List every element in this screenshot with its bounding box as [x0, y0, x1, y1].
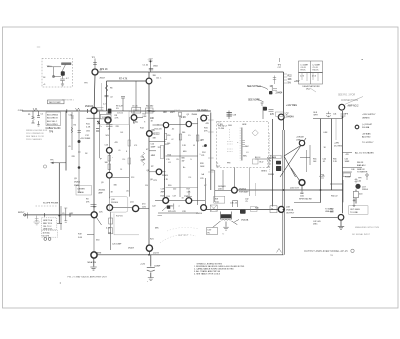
svg-text:+28V: +28V — [334, 143, 340, 145]
svg-text:TM: TM — [330, 255, 333, 257]
svg-text:2N1905: 2N1905 — [239, 188, 247, 190]
svg-text:C27: C27 — [173, 195, 176, 197]
svg-text:PRI: PRI — [227, 163, 231, 165]
svg-text:ALL DC VOLTAGES: ALL DC VOLTAGES — [355, 152, 374, 155]
svg-text:1K: 1K — [270, 86, 273, 88]
svg-text:47K: 47K — [270, 114, 275, 116]
svg-text:R27: R27 — [187, 189, 190, 191]
svg-text:2N404: 2N404 — [192, 114, 198, 116]
svg-text:WIRING SHOWN FOR: WIRING SHOWN FOR — [26, 130, 48, 132]
svg-text:SEC: SEC — [243, 156, 248, 158]
svg-text:220: 220 — [173, 189, 176, 191]
svg-text:2W: 2W — [211, 170, 214, 172]
svg-text:100K: 100K — [200, 166, 205, 168]
svg-text:R1: R1 — [28, 114, 30, 116]
svg-text:2N1304: 2N1304 — [111, 202, 119, 204]
svg-text:C1 .02: C1 .02 — [143, 65, 149, 67]
svg-text:TO PIN 4: TO PIN 4 — [62, 64, 69, 66]
svg-text:DISC: DISC — [313, 223, 318, 225]
svg-text:FIG. 2 5 WATT AUDIO AMPLIFIE: FIG. 2 5 WATT AUDIO AMPLIFIER UNIT — [68, 275, 108, 278]
svg-text:+: + — [112, 157, 113, 159]
svg-text:TEST POINT: TEST POINT — [49, 102, 62, 104]
svg-text:TP3: TP3 — [84, 83, 87, 85]
svg-text:10MF: 10MF — [151, 147, 157, 149]
svg-text:50MF 6V: 50MF 6V — [357, 169, 365, 171]
svg-text:R28: R28 — [215, 198, 218, 200]
svg-text:BLK-RED B: BLK-RED B — [47, 118, 58, 120]
svg-text:4.7K: 4.7K — [133, 122, 138, 124]
svg-text:TP1: TP1 — [92, 57, 95, 59]
svg-text:T3: T3 — [271, 208, 273, 210]
svg-text:2N1304: 2N1304 — [99, 190, 106, 192]
svg-text:330: 330 — [114, 185, 117, 187]
svg-text:2N398: 2N398 — [268, 174, 275, 176]
svg-text:5%: 5% — [188, 135, 191, 137]
svg-text:T1-204: T1-204 — [218, 128, 224, 130]
svg-text:115V OPERATION: 115V OPERATION — [26, 132, 44, 135]
svg-text:50MF: 50MF — [85, 138, 91, 140]
svg-text:Q12 B: Q12 B — [153, 252, 159, 254]
svg-text:SEE FIG. 3 FOR: SEE FIG. 3 FOR — [338, 95, 355, 97]
svg-text:+DELAY: +DELAY — [296, 136, 304, 139]
svg-text:R50 22: R50 22 — [331, 196, 338, 198]
svg-text:TO LINE: TO LINE — [350, 212, 358, 214]
svg-text:OUTPUT AMPLIFIER MODEL AP-1: OUTPUT AMPLIFIER MODEL AP-15 — [304, 250, 348, 253]
svg-text:Q5: Q5 — [187, 114, 190, 116]
svg-text:4.7K: 4.7K — [106, 227, 111, 229]
svg-text:.25: .25 — [245, 201, 248, 203]
svg-text:10K: 10K — [288, 79, 293, 81]
svg-text:.02: .02 — [172, 129, 175, 131]
svg-text:2N404A: 2N404A — [241, 218, 249, 221]
svg-text:680: 680 — [182, 158, 185, 160]
svg-text:C19: C19 — [161, 189, 164, 191]
svg-text:BLU: BLU — [260, 162, 264, 164]
svg-text:C3 .01: C3 .01 — [117, 113, 124, 115]
svg-text:C11 .1: C11 .1 — [156, 77, 161, 79]
svg-text:.02: .02 — [171, 139, 174, 141]
svg-text:2N404A: 2N404A — [286, 116, 295, 119]
svg-text:GRN TO A: GRN TO A — [43, 219, 53, 222]
svg-text:C+20V: C+20V — [150, 111, 157, 113]
svg-text:J1 SIG: J1 SIG — [18, 110, 24, 112]
svg-text:1W: 1W — [182, 161, 185, 163]
svg-text:FIL: FIL — [208, 232, 211, 234]
svg-text:100MF: 100MF — [154, 266, 161, 268]
svg-text:C13: C13 — [105, 145, 108, 147]
svg-text:UNREG: UNREG — [362, 117, 370, 119]
svg-text:C8: C8 — [93, 207, 95, 209]
svg-text:2N301A: 2N301A — [286, 208, 294, 211]
svg-text:.05: .05 — [126, 191, 129, 193]
svg-text:1W: 1W — [176, 159, 179, 161]
svg-text:C15: C15 — [141, 157, 144, 159]
svg-text:R6: R6 — [110, 88, 112, 90]
svg-text:2.2K: 2.2K — [181, 117, 186, 119]
svg-text:BRN: BRN — [97, 252, 102, 254]
svg-text:5%: 5% — [116, 108, 119, 110]
svg-text:CR2: CR2 — [86, 131, 90, 133]
svg-text:PRI 8Ω CT: PRI 8Ω CT — [218, 126, 228, 128]
svg-text:OUT 600Ω: OUT 600Ω — [350, 209, 360, 211]
svg-text:68: 68 — [193, 145, 195, 147]
svg-text:R33: R33 — [200, 163, 203, 165]
svg-text:C14: C14 — [122, 159, 125, 161]
svg-text:2N301: 2N301 — [74, 182, 81, 184]
svg-text:SEE NOTE 3: SEE NOTE 3 — [247, 86, 261, 88]
svg-text:2N109: 2N109 — [128, 247, 135, 249]
svg-text:470: 470 — [346, 154, 349, 156]
svg-text:TO METER: TO METER — [357, 172, 368, 174]
svg-text:2N217: 2N217 — [100, 78, 106, 80]
svg-text:GRN: GRN — [242, 124, 247, 126]
svg-text:SEE NOTE: SEE NOTE — [248, 100, 260, 102]
svg-text:CABLE W-204: CABLE W-204 — [46, 127, 62, 130]
svg-text:SEE TABLE 2 FOR: SEE TABLE 2 FOR — [26, 135, 44, 138]
svg-text:.1: .1 — [178, 206, 180, 208]
svg-text:2N554: 2N554 — [362, 189, 369, 191]
svg-text:AMP NO.2: AMP NO.2 — [348, 105, 360, 108]
svg-text:R2: R2 — [71, 213, 73, 215]
svg-text:PWR AMP: PWR AMP — [239, 190, 249, 193]
svg-text:T2: T2 — [222, 233, 224, 235]
svg-text:TP8: TP8 — [345, 114, 348, 116]
svg-text:R16: R16 — [168, 155, 171, 157]
svg-text:TP10: TP10 — [47, 66, 53, 68]
svg-text:R10 1K: R10 1K — [313, 70, 320, 72]
svg-text:C30 .25: C30 .25 — [230, 202, 238, 204]
svg-text:C14: C14 — [151, 144, 154, 146]
svg-text:C46: C46 — [351, 169, 354, 171]
svg-text:560: 560 — [182, 132, 185, 134]
svg-text:OUTPUT: OUTPUT — [286, 212, 295, 214]
svg-text:BLU 4: BLU 4 — [255, 157, 260, 159]
svg-text:R25 47K: R25 47K — [168, 211, 176, 213]
svg-text:SEC: SEC — [245, 146, 250, 148]
svg-text:DRIVER: DRIVER — [78, 189, 86, 191]
svg-text:SCOPE PROBE: SCOPE PROBE — [43, 202, 59, 204]
svg-text:10Ω: 10Ω — [300, 196, 304, 198]
svg-text:22: 22 — [157, 125, 159, 127]
svg-text:115V AC: 115V AC — [43, 232, 51, 235]
svg-text:STAGE: STAGE — [78, 191, 85, 194]
svg-text:2.2K: 2.2K — [86, 126, 91, 128]
svg-text:10MF: 10MF — [345, 161, 351, 163]
svg-text:FUSE: FUSE — [345, 177, 351, 179]
svg-text:500 MA: 500 MA — [362, 126, 370, 129]
svg-text:+1.5V: +1.5V — [148, 59, 154, 61]
svg-text:BLK-GRN A: BLK-GRN A — [47, 114, 58, 117]
svg-text:470: 470 — [115, 142, 118, 144]
svg-text:BIAS ADJ: BIAS ADJ — [357, 164, 365, 167]
svg-text:DN-1: DN-1 — [306, 88, 310, 90]
svg-text:R3: R3 — [86, 199, 88, 201]
svg-text:NO SIGNAL INPUT: NO SIGNAL INPUT — [352, 233, 371, 236]
svg-text:330: 330 — [145, 185, 148, 187]
svg-text:ORN TO D: ORN TO D — [43, 229, 53, 231]
svg-text:1N34: 1N34 — [153, 66, 158, 68]
svg-text:BLK-YEL C: BLK-YEL C — [47, 121, 58, 123]
svg-text:.02: .02 — [110, 97, 113, 99]
svg-text:BLK-ORN D: BLK-ORN D — [47, 124, 58, 126]
svg-text:TP6: TP6 — [49, 132, 54, 134]
svg-text:MDA 920: MDA 920 — [88, 261, 97, 264]
svg-text:ADJ R60: ADJ R60 — [362, 136, 371, 139]
svg-text:4.7: 4.7 — [204, 185, 207, 187]
svg-text:C29: C29 — [200, 178, 203, 180]
svg-text:3.3K: 3.3K — [267, 160, 272, 162]
svg-text:TP5: TP5 — [50, 160, 53, 162]
svg-text:R22: R22 — [288, 76, 293, 78]
svg-text:R15: R15 — [164, 112, 167, 114]
svg-text:C40: C40 — [358, 180, 361, 182]
svg-text:(+) 20V AT: (+) 20V AT — [362, 123, 373, 126]
svg-text:C17: C17 — [278, 67, 281, 69]
svg-text:R4: R4 — [74, 125, 76, 127]
svg-text:TP2 1K: TP2 1K — [100, 69, 108, 71]
svg-text:C41: C41 — [333, 114, 336, 116]
svg-text:1 2 3: 1 2 3 — [300, 76, 304, 78]
svg-text:2N554: 2N554 — [196, 213, 202, 215]
svg-text:.05: .05 — [68, 146, 71, 148]
svg-text:R10 680: R10 680 — [146, 106, 153, 108]
svg-text:2.2: 2.2 — [103, 104, 106, 106]
svg-text:Q15 OUT: Q15 OUT — [290, 187, 300, 189]
svg-text:R9 2.2K: R9 2.2K — [116, 106, 124, 108]
svg-text:2N404: 2N404 — [276, 93, 283, 95]
svg-text:C5 .05: C5 .05 — [313, 67, 318, 69]
svg-text:5.6K: 5.6K — [78, 237, 83, 239]
svg-text:R60 5K: R60 5K — [357, 162, 364, 164]
svg-text:1W: 1W — [108, 232, 111, 234]
svg-text:100: 100 — [167, 143, 170, 145]
svg-text:Q9: Q9 — [101, 182, 104, 184]
svg-text:C2: C2 — [41, 114, 43, 116]
svg-text:GRN 6: GRN 6 — [261, 171, 267, 173]
svg-text:C4 .05: C4 .05 — [301, 67, 306, 69]
svg-text:MEASURED WITH VTVM: MEASURED WITH VTVM — [355, 226, 379, 229]
svg-text:R17 1K: R17 1K — [116, 215, 123, 217]
svg-text:C32: C32 — [245, 198, 248, 200]
svg-text:C7 .02: C7 .02 — [174, 110, 181, 112]
svg-text:10%: 10% — [142, 207, 146, 209]
svg-text:.05: .05 — [151, 155, 154, 157]
svg-text:+20V SUPPLY: +20V SUPPLY — [362, 114, 376, 116]
svg-text:CONNECTIONS: CONNECTIONS — [341, 100, 358, 102]
svg-text:C9: C9 — [62, 213, 64, 215]
svg-text:2N404: 2N404 — [106, 113, 112, 115]
svg-text:2N2222: 2N2222 — [152, 134, 161, 136]
svg-text:R23: R23 — [161, 195, 164, 197]
svg-text:25MF: 25MF — [141, 160, 147, 162]
svg-text:LINE: LINE — [296, 139, 301, 141]
svg-text:2N2102: 2N2102 — [85, 106, 94, 108]
svg-text:560: 560 — [170, 205, 173, 207]
svg-text:RT1: RT1 — [154, 180, 158, 182]
svg-text:R7 4.7K: R7 4.7K — [119, 79, 128, 81]
svg-text:R18: R18 — [131, 177, 134, 179]
svg-text:C10: C10 — [69, 115, 72, 117]
svg-text:-6V BIAS: -6V BIAS — [362, 133, 371, 136]
svg-text:R9 1K: R9 1K — [301, 70, 307, 72]
svg-text:DC REG: DC REG — [334, 145, 342, 147]
svg-text:.05: .05 — [323, 161, 326, 163]
svg-text:4. SEE TABLE 3 FOR COILS: 4. SEE TABLE 3 FOR COILS — [194, 273, 221, 276]
svg-text:.05: .05 — [118, 150, 121, 152]
svg-text:SEE TEXT: SEE TEXT — [178, 235, 189, 237]
svg-text:.02: .02 — [108, 129, 111, 131]
svg-text:TP4: TP4 — [278, 65, 281, 67]
svg-text:PWR: PWR — [74, 185, 79, 187]
svg-text:R12 220: R12 220 — [155, 129, 162, 131]
svg-text:C16: C16 — [167, 135, 170, 137]
svg-text:4 5 6: 4 5 6 — [312, 76, 316, 78]
svg-text:+12V REG: +12V REG — [286, 105, 297, 107]
svg-text:5%: 5% — [288, 83, 291, 85]
svg-text:.25: .25 — [200, 140, 203, 142]
svg-text:SEE NOTE 1: SEE NOTE 1 — [62, 100, 75, 102]
svg-text:RED TO B: RED TO B — [43, 223, 53, 225]
svg-text:16Ω: 16Ω — [228, 125, 232, 127]
svg-text:.01: .01 — [168, 162, 171, 164]
svg-text:SPKR 8Ω 3W: SPKR 8Ω 3W — [299, 199, 312, 201]
svg-text:C21: C21 — [201, 155, 204, 157]
svg-text:C24: C24 — [188, 177, 191, 179]
svg-text:TP9: TP9 — [358, 178, 361, 180]
svg-text:TONE: TONE — [102, 117, 108, 119]
svg-text:.1: .1 — [199, 154, 201, 156]
svg-text:YEL TO C: YEL TO C — [43, 226, 52, 228]
svg-text:INPUT: INPUT — [18, 212, 25, 214]
svg-text:230V CHANGES: 230V CHANGES — [26, 138, 42, 141]
svg-text:C25 10MF: C25 10MF — [112, 243, 122, 245]
svg-text:+25V: +25V — [80, 138, 85, 140]
svg-text:Q4 2N404: Q4 2N404 — [197, 110, 208, 112]
svg-text:2N109: 2N109 — [162, 175, 169, 177]
svg-text:+20V: +20V — [294, 81, 300, 83]
svg-text:BIAS: BIAS — [272, 156, 277, 159]
svg-text:Q8: Q8 — [147, 170, 150, 172]
svg-text:TO J4 PIN 7: TO J4 PIN 7 — [362, 142, 374, 144]
svg-text:C6 .05: C6 .05 — [132, 105, 138, 107]
svg-text:60 CPS: 60 CPS — [43, 235, 50, 237]
